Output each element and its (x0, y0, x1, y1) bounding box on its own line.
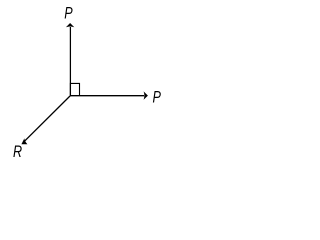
svg-text:P: P (153, 88, 161, 107)
wire vertical vector line (69, 27, 71, 96)
svg-text:P: P (64, 4, 72, 23)
node arrowhead down-left (21, 138, 27, 144)
node arrowhead up (66, 23, 74, 27)
node right-angle marker square (70, 83, 79, 95)
wire horizontal vector line (70, 95, 144, 97)
wire diagonal vector line (25, 96, 71, 141)
svg-text:R: R (13, 142, 22, 161)
node arrowhead right (144, 91, 148, 99)
